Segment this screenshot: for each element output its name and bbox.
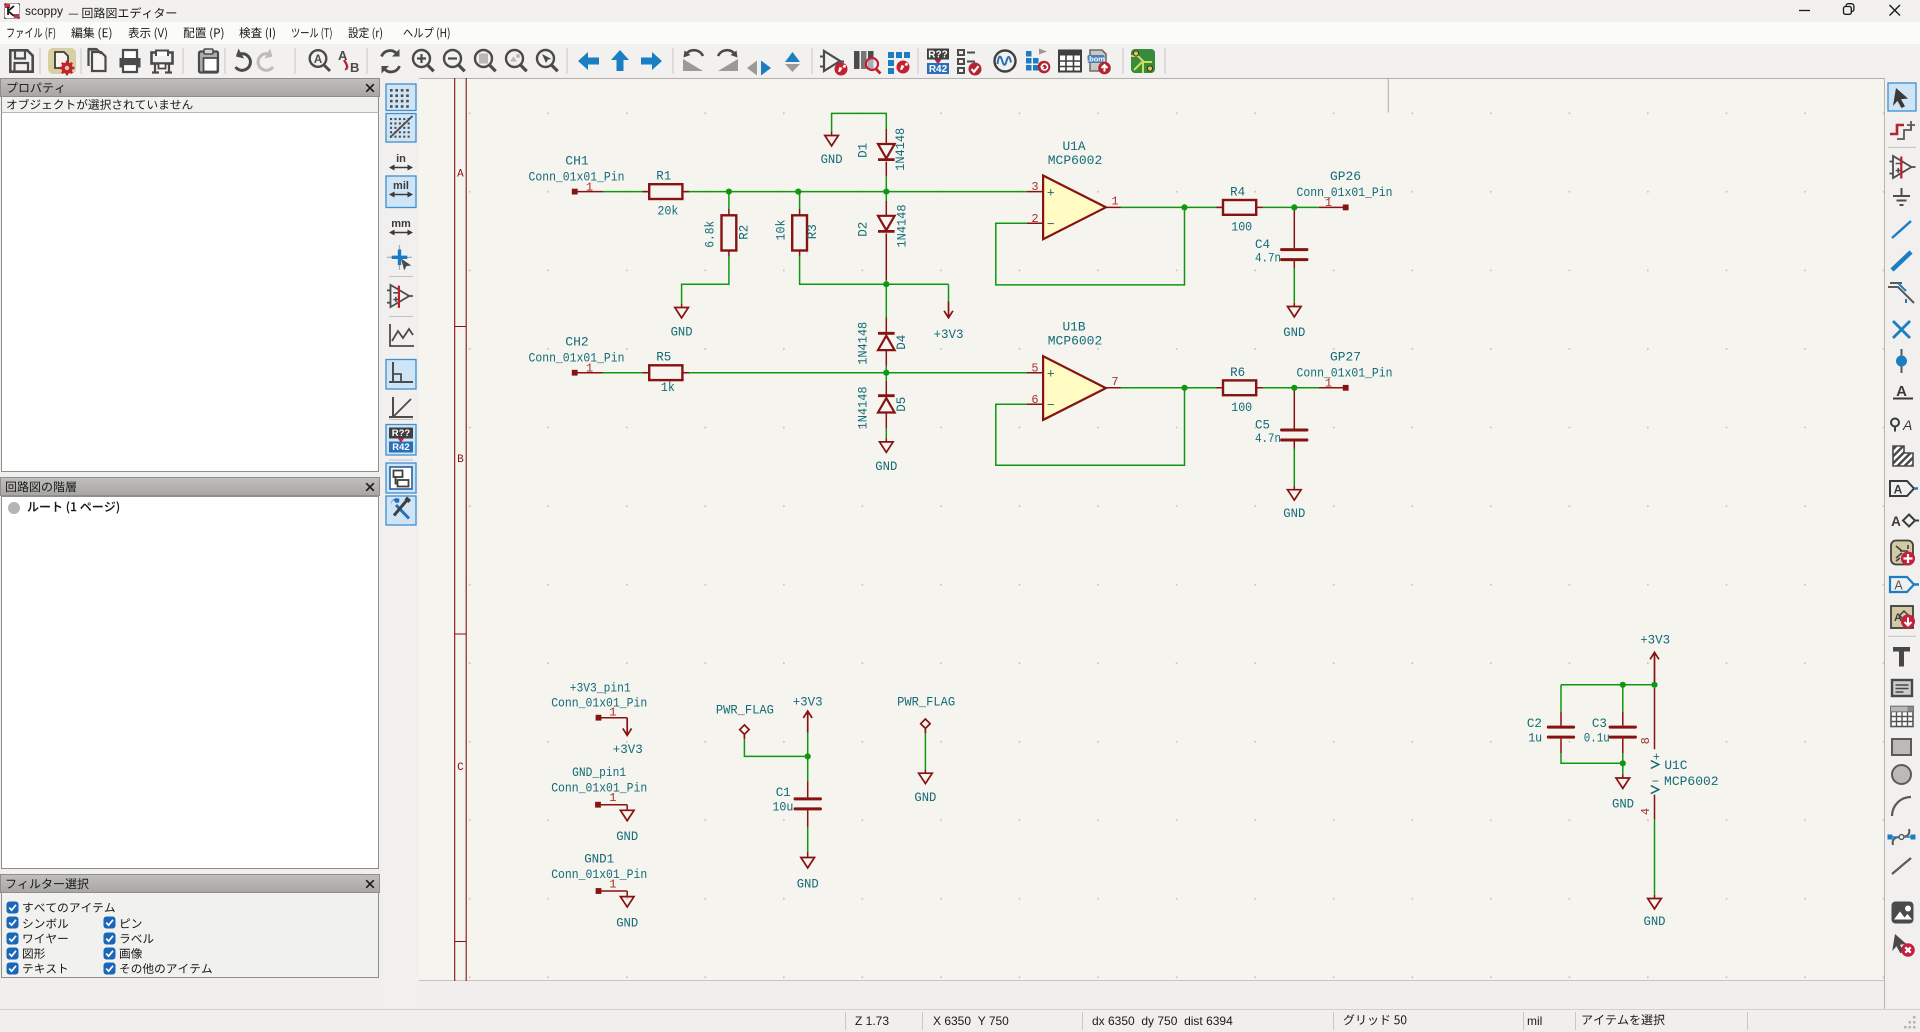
svg-text:MCP6002: MCP6002 bbox=[1048, 153, 1103, 168]
svg-text:1N4148: 1N4148 bbox=[894, 205, 909, 248]
svg-text:4.7n: 4.7n bbox=[1255, 251, 1281, 266]
svg-text:R42: R42 bbox=[392, 442, 409, 453]
svg-text:A: A bbox=[314, 54, 322, 66]
svg-text:1: 1 bbox=[609, 877, 616, 891]
svg-text:GND: GND bbox=[797, 876, 819, 891]
svg-text:GND: GND bbox=[875, 459, 897, 474]
svg-text:GND_pin1: GND_pin1 bbox=[572, 765, 626, 780]
svg-text:1: 1 bbox=[586, 362, 593, 376]
svg-text:4: 4 bbox=[1639, 808, 1653, 815]
svg-text:10u: 10u bbox=[772, 800, 793, 815]
svg-text:−: − bbox=[1047, 398, 1055, 413]
svg-text:GND: GND bbox=[616, 915, 638, 930]
svg-text:A: A bbox=[1894, 483, 1903, 497]
svg-text:C1: C1 bbox=[776, 785, 791, 800]
svg-text:R6: R6 bbox=[1230, 365, 1245, 380]
svg-text:A: A bbox=[457, 168, 464, 180]
svg-text:1u: 1u bbox=[1528, 731, 1542, 746]
svg-text:1: 1 bbox=[586, 181, 593, 195]
svg-text:Conn_01x01_Pin: Conn_01x01_Pin bbox=[551, 867, 647, 882]
svg-text:D4: D4 bbox=[894, 335, 909, 350]
svg-text:GND: GND bbox=[1283, 506, 1305, 521]
svg-text:+: + bbox=[1653, 751, 1660, 765]
svg-text:B: B bbox=[350, 60, 359, 75]
svg-text:R42: R42 bbox=[929, 64, 948, 75]
svg-text:R1: R1 bbox=[656, 169, 671, 184]
svg-text:20k: 20k bbox=[657, 204, 678, 219]
svg-text:1: 1 bbox=[1325, 376, 1332, 390]
svg-text:+3V3: +3V3 bbox=[613, 742, 643, 757]
svg-text:+: + bbox=[1047, 186, 1055, 201]
svg-text:3: 3 bbox=[1031, 180, 1038, 194]
svg-text:D1: D1 bbox=[855, 143, 870, 158]
svg-text:8: 8 bbox=[1639, 737, 1653, 744]
svg-text:PWR_FLAG: PWR_FLAG bbox=[716, 703, 774, 718]
svg-text:100: 100 bbox=[1231, 219, 1252, 234]
svg-text:C2: C2 bbox=[1527, 716, 1542, 731]
svg-text:R5: R5 bbox=[656, 350, 671, 365]
svg-text:in: in bbox=[396, 153, 406, 165]
svg-text:R4: R4 bbox=[1230, 184, 1245, 199]
svg-text:GND1: GND1 bbox=[584, 852, 614, 867]
svg-text:10k: 10k bbox=[773, 219, 788, 240]
svg-text:Conn_01x01_Pin: Conn_01x01_Pin bbox=[1297, 366, 1393, 381]
svg-text:A: A bbox=[1902, 417, 1912, 433]
svg-text:C: C bbox=[457, 762, 464, 774]
svg-text:B: B bbox=[457, 454, 464, 466]
svg-text:2: 2 bbox=[1031, 212, 1038, 226]
svg-text:U1C: U1C bbox=[1664, 758, 1687, 773]
svg-text:+3V3_pin1: +3V3_pin1 bbox=[570, 680, 631, 695]
svg-text:R??: R?? bbox=[928, 50, 947, 61]
svg-text:GP26: GP26 bbox=[1330, 169, 1361, 184]
svg-text:A: A bbox=[1896, 383, 1907, 400]
svg-text:R2: R2 bbox=[737, 225, 752, 240]
svg-text:MCP6002: MCP6002 bbox=[1048, 333, 1103, 348]
svg-text:6: 6 bbox=[1031, 393, 1038, 407]
svg-text:1N4148: 1N4148 bbox=[855, 322, 870, 365]
svg-text:Conn_01x01_Pin: Conn_01x01_Pin bbox=[529, 351, 625, 366]
svg-text:A: A bbox=[1894, 579, 1903, 593]
svg-text:5: 5 bbox=[1031, 361, 1038, 375]
svg-text:GND: GND bbox=[821, 152, 843, 167]
svg-text:1: 1 bbox=[1325, 196, 1332, 210]
svg-text:1: 1 bbox=[609, 705, 616, 719]
svg-text:U1B: U1B bbox=[1063, 319, 1086, 334]
svg-text:A: A bbox=[338, 48, 348, 63]
svg-text:1k: 1k bbox=[661, 380, 675, 395]
svg-text:1N4148: 1N4148 bbox=[855, 386, 870, 429]
svg-text:R3: R3 bbox=[805, 224, 820, 239]
svg-text:4.7n: 4.7n bbox=[1255, 431, 1281, 446]
svg-text:+: + bbox=[1047, 367, 1055, 382]
svg-text:Conn_01x01_Pin: Conn_01x01_Pin bbox=[1297, 185, 1393, 200]
svg-text:mil: mil bbox=[393, 180, 409, 192]
svg-text:1: 1 bbox=[1111, 194, 1118, 208]
svg-text:R??: R?? bbox=[392, 428, 411, 439]
svg-text:1N4148: 1N4148 bbox=[893, 128, 908, 171]
svg-text:GND: GND bbox=[671, 325, 693, 340]
svg-text:0.1u: 0.1u bbox=[1584, 731, 1610, 746]
svg-text:D5: D5 bbox=[894, 397, 909, 412]
svg-text:PWR_FLAG: PWR_FLAG bbox=[897, 695, 955, 710]
svg-text:CH1: CH1 bbox=[565, 154, 589, 169]
svg-text:1: 1 bbox=[609, 791, 616, 805]
svg-text:A: A bbox=[1891, 514, 1901, 529]
svg-text:mm: mm bbox=[391, 218, 411, 230]
svg-text:GND: GND bbox=[1612, 797, 1634, 812]
svg-text:+3V3: +3V3 bbox=[934, 327, 964, 342]
svg-text:GND: GND bbox=[914, 790, 936, 805]
svg-text:GND: GND bbox=[1644, 914, 1666, 929]
svg-text:MCP6002: MCP6002 bbox=[1664, 774, 1719, 789]
svg-text:6.8k: 6.8k bbox=[702, 221, 717, 248]
svg-text:−: − bbox=[1047, 217, 1055, 232]
svg-text:D2: D2 bbox=[855, 222, 870, 237]
svg-text:GND: GND bbox=[616, 829, 638, 844]
svg-text:+3V3: +3V3 bbox=[1640, 632, 1670, 647]
svg-text:100: 100 bbox=[1231, 400, 1252, 415]
svg-text:+3V3: +3V3 bbox=[793, 695, 823, 710]
svg-text:Conn_01x01_Pin: Conn_01x01_Pin bbox=[551, 696, 647, 711]
svg-text:C3: C3 bbox=[1592, 716, 1607, 731]
svg-text:Conn_01x01_Pin: Conn_01x01_Pin bbox=[551, 781, 647, 796]
svg-text:7: 7 bbox=[1111, 375, 1118, 389]
svg-text:U1A: U1A bbox=[1063, 139, 1086, 154]
svg-text:GND: GND bbox=[1283, 325, 1305, 340]
svg-text:−: − bbox=[1652, 775, 1659, 789]
svg-text:Conn_01x01_Pin: Conn_01x01_Pin bbox=[529, 169, 625, 184]
svg-text:CH2: CH2 bbox=[565, 335, 588, 350]
svg-text:GP27: GP27 bbox=[1330, 349, 1361, 364]
